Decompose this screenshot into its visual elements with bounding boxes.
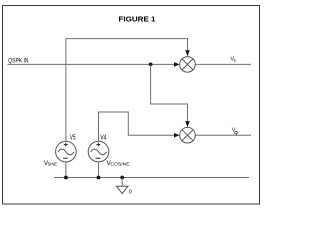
svg-text:COSINE: COSINE	[110, 161, 129, 167]
wire QSPK junction down and into mixer M2 top	[151, 64, 188, 121]
svg-text:0: 0	[129, 190, 132, 196]
node VI label	[231, 57, 236, 63]
junction dot V4 on rail	[97, 176, 101, 180]
voltage source V5	[56, 141, 77, 162]
svg-text:SINE: SINE	[48, 161, 58, 167]
ground symbol node 0	[116, 178, 128, 194]
wire V5 bottom to ground rail	[65, 162, 67, 178]
wire mixer M2 output to VQ	[195, 134, 251, 136]
wire V4 route to mixer M2 left input	[99, 112, 175, 141]
mixer M1 (multiplier)	[180, 57, 196, 73]
junction dot ground stub on rail	[120, 176, 124, 180]
wire V5 to top route into mixer M1	[66, 39, 188, 142]
wire mixer M1 output to VI	[195, 63, 251, 65]
node VQ label	[232, 128, 239, 135]
svg-text:V4: V4	[100, 132, 106, 141]
svg-text:I: I	[234, 58, 235, 63]
arrowhead into mixer M1 top input	[185, 50, 190, 56]
arrowhead into mixer M1 left input	[174, 62, 180, 67]
wire V4 bottom to ground rail	[98, 162, 100, 178]
svg-text:QSPK IN: QSPK IN	[8, 58, 28, 65]
svg-text:V5: V5	[70, 132, 76, 141]
arrowhead into mixer M2 left input	[174, 133, 180, 138]
svg-text:FIGURE 1: FIGURE 1	[119, 15, 157, 24]
arrowhead into mixer M2 top input	[185, 121, 190, 127]
junction dot V5 on rail	[64, 176, 68, 180]
mixer M2 (multiplier)	[180, 127, 196, 143]
voltage source V4	[88, 141, 109, 162]
junction dot on QSPK IN net	[149, 63, 153, 67]
svg-text:Q: Q	[234, 130, 238, 135]
wire ground rail	[54, 177, 249, 179]
wire QSPK IN net (horizontal)	[8, 63, 175, 65]
label VCOSINE	[107, 160, 130, 167]
label VSINE	[44, 160, 57, 167]
